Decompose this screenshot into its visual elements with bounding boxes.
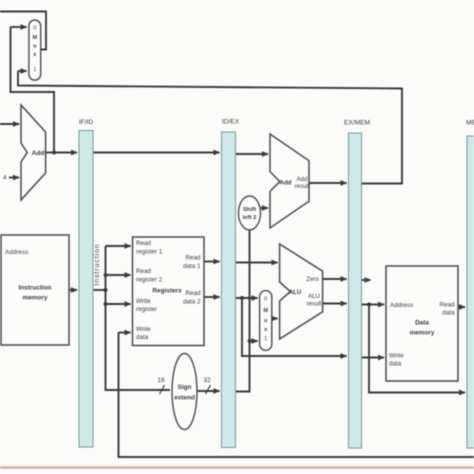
svg-text:Registers: Registers [152,288,182,295]
svg-text:register 1: register 1 [136,249,163,256]
svg-text:Write: Write [136,298,151,305]
svg-text:ID/EX: ID/EX [222,119,240,126]
svg-text:Read: Read [185,255,201,262]
svg-text:Data: Data [415,320,429,327]
svg-text:u: u [33,44,37,50]
svg-text:result: result [307,302,322,308]
svg-text:data 2: data 2 [183,299,201,306]
svg-text:MEM/WB: MEM/WB [466,120,474,127]
svg-text:4: 4 [3,175,7,182]
svg-text:M: M [32,35,37,41]
svg-text:memory: memory [410,330,435,337]
svg-text:0: 0 [33,26,36,32]
svg-text:register 2: register 2 [136,277,163,284]
svg-text:data: data [389,361,402,368]
svg-text:data: data [442,310,455,317]
svg-text:EX/MEM: EX/MEM [344,120,370,127]
svg-text:memory: memory [23,295,48,302]
svg-text:Write: Write [389,353,404,360]
svg-text:Address: Address [5,249,28,256]
svg-text:Read: Read [136,268,152,275]
svg-text:Read: Read [185,290,201,297]
svg-text:0: 0 [264,297,267,303]
svg-text:Add: Add [32,150,45,157]
svg-text:u: u [264,318,268,324]
svg-text:Sign: Sign [178,384,192,391]
svg-text:Zero: Zero [306,277,319,283]
svg-text:ALU: ALU [308,294,320,300]
svg-text:32: 32 [203,377,211,384]
svg-text:Write: Write [136,326,151,333]
svg-text:data 1: data 1 [183,263,201,270]
svg-text:Address: Address [390,302,413,309]
svg-text:Shift: Shift [243,207,256,213]
svg-text:Add: Add [279,180,291,187]
svg-text:Read: Read [439,302,455,309]
svg-text:ALU: ALU [289,290,301,296]
svg-text:data: data [136,334,149,341]
svg-text:IF/ID: IF/ID [79,119,94,126]
svg-text:Add: Add [297,177,308,183]
svg-text:1: 1 [33,67,36,73]
svg-text:Instruction: Instruction [94,243,101,285]
svg-text:result: result [295,184,310,190]
svg-text:1: 1 [264,336,267,342]
svg-text:16: 16 [157,377,165,384]
svg-text:left 2: left 2 [243,215,257,221]
svg-text:Read: Read [136,240,152,247]
svg-text:M: M [263,308,268,314]
svg-text:register: register [136,306,157,313]
svg-text:Instruction: Instruction [18,285,51,292]
svg-text:extend: extend [174,395,195,402]
